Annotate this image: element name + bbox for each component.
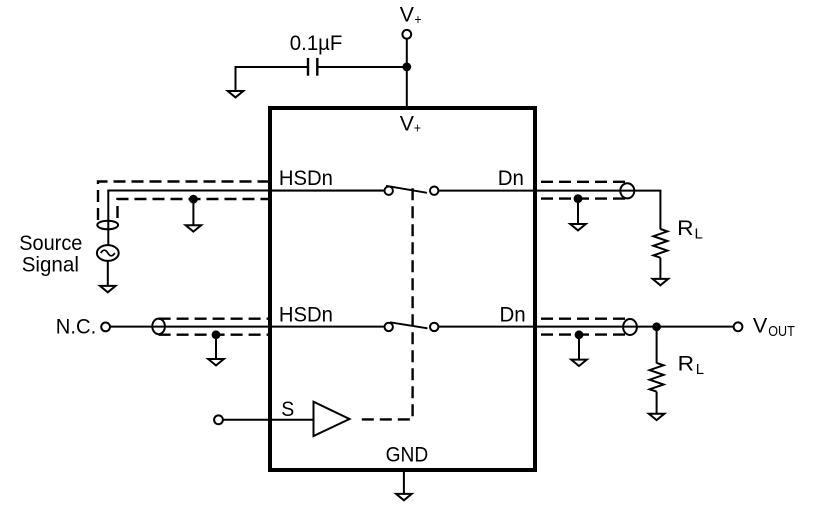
control dashed: buffer output to switch arms (356, 188, 413, 419)
switch SW1 arm (386, 186, 427, 193)
wire: source to HSDn pin (channel 1) (108, 191, 384, 245)
ground: channel 2 left shield (208, 359, 224, 365)
wire: resistor to ground (channel 2) (656, 392, 658, 414)
capacitor C1 plates (308, 58, 317, 76)
buffer U1A (control driver triangle) (314, 402, 350, 436)
wire: switch to Dn pin (channel 2) (438, 326, 533, 328)
svg-text:HSDn: HSDn (279, 302, 333, 326)
shield dashed: channel 1 right lower (537, 197, 625, 199)
label Source Signal (19, 231, 82, 277)
resistor RL (channel 2) (650, 363, 664, 392)
shield dashed: channel 1 right upper (537, 181, 625, 183)
svg-text:N.C.: N.C. (56, 314, 96, 338)
source V1 (AC source circle with sine) (97, 245, 119, 261)
switch SW2 contacts (385, 323, 439, 331)
wire: channel 1 right shield ground drop (577, 199, 579, 224)
wire: channel 2 left shield ground drop (215, 335, 217, 359)
shield dashed: channel 2 right upper (537, 318, 625, 320)
svg-text:R: R (677, 216, 693, 240)
shield dashed: channel 2 left lower (159, 334, 268, 336)
svg-text:+: + (414, 120, 421, 136)
ground: GND pin (396, 494, 412, 500)
shield dashed: channel 1 left upper (98, 182, 268, 221)
ground: channel 2 right shield (571, 360, 587, 366)
wire: capacitor left plate to ground (236, 67, 308, 91)
wire: HSDn pin to switch (channel 2) (272, 326, 385, 328)
junction: channel 1 right shield to ground (574, 194, 583, 203)
svg-text:S: S (281, 397, 294, 421)
wire: channel 2 right shield ground drop (578, 335, 580, 359)
wire: resistor to ground (channel 1) (659, 258, 661, 279)
wire: Dn pin to VOUT terminal (channel 2) (537, 326, 734, 328)
svg-text:Source: Source (19, 231, 82, 255)
label RL (channel 1) (677, 216, 703, 243)
node VOUT label (753, 314, 795, 340)
pin label V+ (inside IC) (400, 111, 421, 135)
junction: V+ / bypass cap (402, 63, 411, 72)
svg-text:L: L (696, 361, 704, 378)
terminal V+ (open circle) (402, 30, 411, 39)
wire: VOUT node to load resistor (channel 2) (656, 327, 658, 363)
wire: S terminal to buffer (223, 419, 314, 421)
coax shield end (channel 1 left, ellipse) (97, 221, 118, 230)
wire: Dn to load resistor (channel 1) (537, 191, 660, 230)
coax shield end (channel 1 right, circle) (620, 183, 634, 198)
svg-text:Signal: Signal (22, 253, 79, 277)
resistor RL (channel 1) (653, 229, 667, 258)
wire: channel 1 left shield ground drop (192, 199, 194, 225)
terminal VOUT (open circle) (734, 322, 743, 331)
svg-text:0.1µF: 0.1µF (290, 31, 343, 55)
ground: channel 1 load (653, 279, 669, 285)
ground: channel 2 load (649, 414, 665, 420)
junction: channel 2 right shield to ground (575, 330, 584, 339)
wire: switch to Dn pin (channel 1) (438, 190, 533, 192)
svg-text:Dn: Dn (500, 302, 526, 326)
shield dashed: channel 2 right lower (537, 333, 625, 335)
wire: N.C. terminal to HSDn pin (channel 2) (110, 326, 268, 328)
coax shield end (channel 2 right, ellipse) (623, 319, 637, 335)
ground: channel 1 right shield (570, 224, 586, 230)
junction: channel 2 left shield to ground (212, 330, 221, 339)
switch SW2 arm (390, 322, 428, 328)
junction: channel 1 left shield to ground (189, 195, 198, 204)
svg-text:Dn: Dn (498, 166, 524, 190)
svg-text:L: L (695, 226, 703, 243)
switch SW1 contacts (385, 187, 439, 195)
svg-text:V: V (400, 3, 415, 27)
terminal S (open circle) (214, 415, 223, 424)
svg-text:V: V (400, 111, 415, 135)
wire: source to ground (107, 261, 109, 286)
ground: bypass capacitor (228, 91, 244, 97)
wire: junction to capacitor right plate (318, 66, 407, 68)
svg-text:HSDn: HSDn (279, 166, 333, 190)
junction: VOUT node (652, 322, 661, 331)
wire: HSDn pin to switch (channel 1) (272, 190, 385, 192)
svg-text:GND: GND (386, 443, 429, 467)
IC body U1 (analog switch) (270, 108, 535, 470)
shield dashed: channel 2 left upper (159, 318, 268, 320)
terminal N.C. (open circle) (101, 323, 110, 332)
svg-text:OUT: OUT (768, 323, 795, 340)
node V+ label (top) (400, 3, 422, 27)
shield dashed: channel 1 left lower (118, 199, 269, 218)
wire: V+ terminal to IC top pin (406, 39, 408, 106)
svg-text:R: R (678, 352, 694, 376)
label RL (channel 2) (678, 352, 705, 379)
svg-text:V: V (753, 314, 768, 338)
ground: source (100, 286, 116, 292)
svg-text:+: + (415, 11, 422, 27)
ground: channel 1 left shield (186, 225, 202, 231)
coax shield end (channel 2 left, ellipse) (152, 319, 165, 335)
wire: GND pin to ground (403, 472, 405, 493)
